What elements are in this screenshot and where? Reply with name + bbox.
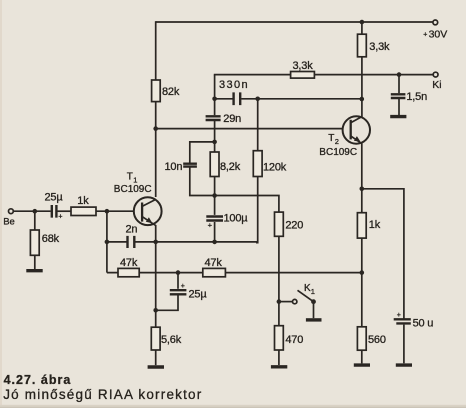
svg-text:47k: 47k (205, 257, 223, 269)
capacitor C 29n (206, 99, 242, 125)
svg-text:120k: 120k (263, 161, 287, 173)
node: 100u bottom on emitter line (212, 240, 217, 245)
node: base-x line / 2n branch (105, 211, 110, 272)
transistor Q T1 BC109C (114, 172, 162, 226)
resistor R 3,3k feedback (291, 60, 315, 78)
ground below K1 (306, 302, 322, 320)
capacitor C 2n (107, 224, 156, 249)
terminal +30V (423, 20, 447, 41)
resistor R 560 (357, 327, 385, 350)
svg-text:3,3k: 3,3k (293, 60, 314, 72)
wire: 1k to 560 (361, 238, 363, 327)
terminal Be input (3, 209, 15, 228)
node A: T1 collector / base line of T2 (153, 126, 158, 131)
resistor R 8,2k (210, 142, 240, 177)
capacitor C 330n (215, 79, 258, 105)
svg-text:2: 2 (335, 137, 339, 146)
node: RIAA feedback node (212, 97, 217, 102)
resistor R 82k (152, 80, 180, 102)
svg-text:47k: 47k (120, 257, 138, 269)
wire: emitter line to 100u and 120k (156, 241, 258, 243)
resistor R 220 (275, 212, 304, 236)
wire: bias bus 47k line (107, 272, 362, 274)
resistor R 5,6k (151, 327, 181, 350)
wire: rail corner down to 82k (155, 21, 157, 80)
capacitor C 50u electrolytic (394, 312, 434, 330)
svg-text:1: 1 (311, 287, 315, 296)
ground below 5,6k (148, 350, 164, 367)
svg-text:29n: 29n (223, 113, 241, 125)
node: T1 emitter / 2n / 100u line (153, 240, 158, 245)
svg-text:25µ: 25µ (45, 192, 64, 204)
wire: 82k to T1 collector (155, 102, 157, 197)
resistor R 120k (253, 99, 286, 177)
wire: 25u to 1k (58, 210, 72, 212)
caption line 1 (4, 373, 72, 387)
node: 8,2k bottom / 100u top (212, 177, 217, 198)
node: 25u return on emitter line (153, 308, 158, 313)
svg-text:+: + (423, 32, 427, 39)
node: base / 47k bias junction (105, 209, 110, 214)
wire: 3,3k to T2 collector (361, 57, 363, 117)
ground below 50u (396, 325, 412, 366)
wire: 29n down across base line (214, 121, 216, 142)
svg-text:4.27. ábra: 4.27. ábra (4, 373, 72, 387)
resistor R 470 (275, 326, 304, 350)
wire: 3,3k feedback to Ki (314, 74, 433, 76)
ground below 68k (26, 255, 42, 270)
resistor R 1k input (71, 195, 96, 216)
node: Ki / 1,5n junction (397, 72, 402, 77)
svg-text:470: 470 (285, 334, 303, 346)
capacitor C 25u decoupling electrolytic (170, 273, 208, 301)
resistor R 1k emitter (357, 213, 380, 238)
svg-text:+: + (397, 312, 401, 319)
node: rail / 3,3k junction (360, 20, 365, 25)
node: T2 emitter / 50u branch (360, 187, 365, 192)
capacitor C 10n branch (165, 142, 215, 196)
resistor R 3,3k collector load (358, 22, 390, 57)
svg-text:Be: Be (3, 217, 15, 228)
capacitor C 100u electrolytic (206, 196, 248, 230)
svg-text:10n: 10n (165, 161, 183, 173)
node: input / 68k junction (33, 209, 38, 214)
capacitor C 1,5n (391, 75, 427, 103)
svg-text:T: T (328, 133, 334, 144)
svg-text:1k: 1k (77, 195, 89, 207)
node: 330n right / 120k top (255, 97, 260, 102)
wire: emitter node over to 50u (362, 189, 404, 319)
svg-text:100µ: 100µ (224, 213, 249, 225)
node: bus / 25u decoupling (176, 270, 181, 275)
wire: feedback node down from top line (214, 75, 216, 99)
wire: T1 emitter down (155, 225, 157, 327)
svg-text:+: + (181, 283, 185, 290)
svg-text:8,2k: 8,2k (220, 161, 241, 173)
svg-text:Ki: Ki (432, 79, 441, 91)
resistor R 47k left (118, 257, 139, 277)
svg-text:+: + (58, 214, 62, 221)
wire: feedback line left segment (214, 74, 291, 76)
svg-text:T: T (127, 172, 133, 183)
resistor R 68k (30, 211, 59, 255)
wire: 25u return to emitter line (156, 296, 178, 311)
svg-text:560: 560 (368, 334, 386, 346)
svg-text:BC109C: BC109C (114, 184, 152, 195)
scan edge tint left (0, 0, 2, 408)
transistor Q T2 BC109C (319, 116, 370, 158)
caption line 2 (3, 387, 202, 402)
wire: 120k bottom down to emitter line (256, 177, 258, 243)
svg-text:30V: 30V (429, 29, 448, 41)
svg-text:1,5n: 1,5n (406, 91, 427, 103)
svg-text:50 u: 50 u (413, 318, 434, 330)
wire: 220 bottom to switch node (278, 236, 280, 325)
svg-text:5,6k: 5,6k (161, 334, 182, 346)
wire: +30V supply rail (156, 21, 433, 23)
scan edge tint bottom (0, 405, 466, 408)
capacitor C 25u input (45, 192, 64, 221)
svg-text:3,3k: 3,3k (369, 41, 390, 53)
wire: 1k to T1 base (96, 210, 134, 212)
ground below 560 (354, 350, 370, 365)
switch K1 (279, 283, 316, 304)
node: 29n / 10n / 8,2k junction (212, 140, 217, 145)
wire: 100u bottom (214, 222, 216, 242)
svg-text:82k: 82k (162, 86, 180, 98)
wire: 330n node to T2 collector (258, 98, 362, 100)
svg-text:Jó minőségű RIAA korrektor: Jó minőségű RIAA korrektor (3, 387, 202, 402)
wire: network bottom to 220 (215, 196, 279, 213)
wire: T1 collector node to T2 base (156, 128, 343, 130)
svg-text:68k: 68k (42, 233, 60, 245)
node: 1k bottom / bias bus (360, 270, 365, 275)
wire: Be to 25u (13, 210, 50, 212)
svg-text:220: 220 (285, 220, 303, 232)
svg-text:25µ: 25µ (189, 289, 208, 301)
terminal Ki (432, 72, 441, 91)
node: 220 / K1 / 470 junction (277, 299, 282, 304)
resistor R 47k right (203, 257, 226, 277)
svg-text:330n: 330n (219, 79, 249, 91)
svg-text:BC109C: BC109C (319, 147, 357, 158)
node: T2 collector (360, 97, 365, 102)
svg-text:+: + (208, 221, 213, 230)
ground below 470 (271, 350, 287, 367)
svg-text:1k: 1k (369, 219, 381, 231)
ground below 1,5n (390, 99, 406, 117)
wire: T2 emitter down (361, 143, 363, 212)
svg-text:1: 1 (133, 176, 137, 185)
svg-text:2n: 2n (126, 224, 138, 236)
